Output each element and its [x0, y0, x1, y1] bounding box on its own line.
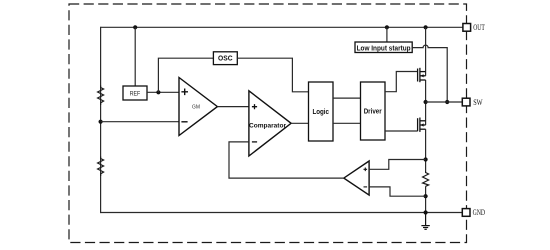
wire left vertical feedback — [100, 27, 102, 213]
wire right power rail upper segment — [425, 27, 427, 76]
resistor R3 current sense — [423, 171, 429, 186]
block Driver — [361, 82, 386, 140]
svg-text:Logic: Logic — [312, 107, 329, 116]
wire top rail down to REF — [134, 27, 136, 86]
wire right rail lower segment — [425, 186, 427, 212]
svg-text:OUT: OUT — [473, 23, 485, 32]
wire Driver to low-side gate — [385, 130, 418, 132]
wire sense amp non-inverting input — [369, 160, 426, 170]
GM plus sign — [181, 89, 188, 96]
wire comparator output to Logic — [291, 122, 308, 124]
node SW / startup junction — [445, 100, 449, 104]
svg-text:GND: GND — [473, 208, 486, 217]
comparator plus sign — [252, 104, 257, 109]
block REF — [123, 86, 147, 100]
wire rail Q2 source to sense resistor — [425, 129, 427, 171]
pin OUT — [463, 24, 471, 32]
svg-text:GM: GM — [192, 105, 200, 111]
resistor R2 (lower feedback) — [98, 157, 104, 177]
wire SW line to pin — [426, 101, 463, 103]
node sense resistor top junction — [424, 157, 428, 161]
node top rail / startup branch — [385, 25, 389, 29]
block OSC — [213, 52, 237, 65]
node SW junction on rail — [424, 100, 428, 104]
node sense resistor bottom junction — [424, 194, 428, 198]
svg-text:SW: SW — [473, 98, 483, 107]
transistor Q2 low-side MOSFET — [418, 118, 426, 132]
wire startup output with hop to SW node — [412, 45, 447, 102]
node top rail / REF branch — [133, 25, 137, 29]
wire Driver to high-side gate — [385, 72, 418, 92]
svg-text:OSC: OSC — [218, 56, 233, 63]
op-amp Comparator — [249, 91, 291, 156]
wire REF junction up and right to OSC input — [158, 58, 213, 92]
node ground rail junction — [424, 210, 428, 214]
resistor R1 (upper feedback) — [98, 86, 104, 106]
svg-text:Comparator: Comparator — [249, 122, 286, 129]
wire OSC output to Logic — [237, 58, 308, 92]
block Low Input startup — [355, 42, 412, 53]
IC boundary dashed border — [69, 4, 467, 243]
wire Logic to Driver upper — [333, 97, 361, 99]
wire bottom ground rail — [101, 212, 463, 214]
wire rail Q1 source to SW — [425, 80, 427, 125]
wire Logic to Driver lower — [333, 122, 361, 124]
ground symbol — [421, 213, 429, 230]
transistor Q1 high-side MOSFET — [418, 68, 426, 82]
pin GND — [462, 209, 470, 217]
node top rail / output rail — [424, 25, 428, 29]
GM minus sign — [181, 121, 187, 123]
wire divider tap to GM inverting input — [101, 121, 179, 123]
svg-text:Driver: Driver — [364, 107, 382, 116]
block Logic — [309, 82, 334, 141]
pin SW — [462, 98, 470, 106]
svg-text:REF: REF — [130, 90, 141, 97]
op-amp GM error amplifier — [179, 78, 217, 136]
node feedback divider junction — [99, 120, 103, 124]
wire GM output to comparator — [217, 106, 249, 108]
wire top rail VOUT — [101, 26, 463, 28]
sense amp plus sign — [364, 168, 368, 172]
sense amp minus sign — [364, 186, 368, 188]
wire REF output to GM non-inverting input — [147, 91, 179, 93]
wire sense amp inverting input — [369, 187, 426, 196]
comparator minus sign — [252, 141, 257, 143]
svg-text:Low Input startup: Low Input startup — [357, 43, 412, 52]
wire sense amp output to comparator inverting input — [229, 142, 344, 178]
wire rail down to startup block — [386, 27, 388, 42]
node REF output junction — [156, 90, 160, 94]
op-amp current sense amplifier — [344, 161, 369, 195]
